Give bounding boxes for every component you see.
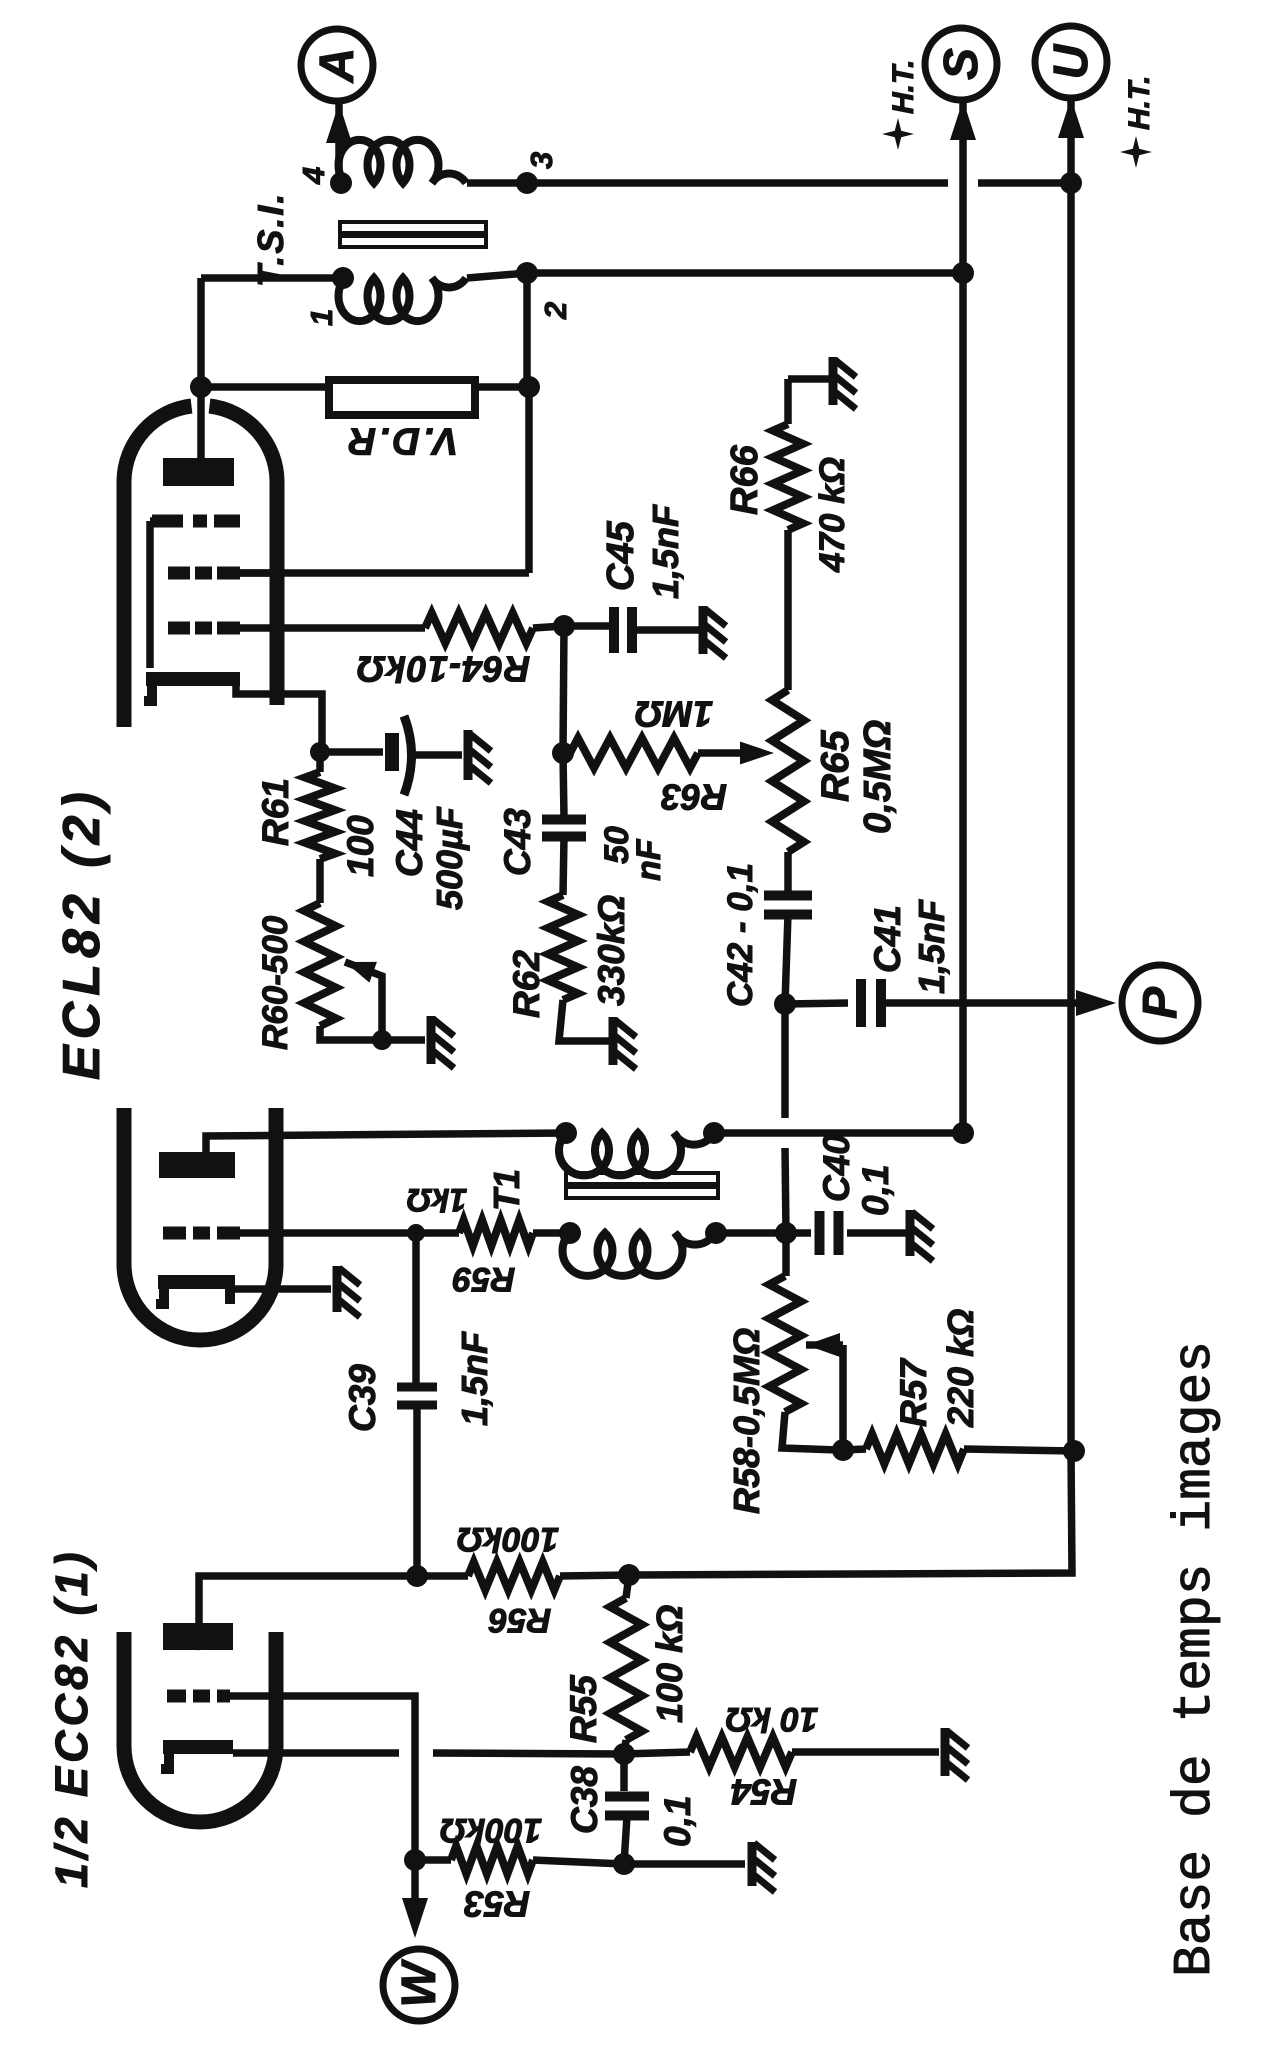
svg-text:T.S.I.: T.S.I. bbox=[250, 192, 291, 287]
svg-text:Base de temps images: Base de temps images bbox=[1165, 1341, 1225, 1977]
svg-text:220 kΩ: 220 kΩ bbox=[940, 1309, 981, 1428]
svg-text:R61: R61 bbox=[255, 778, 296, 846]
svg-text:0,5MΩ: 0,5MΩ bbox=[857, 720, 899, 834]
svg-text:R57: R57 bbox=[893, 1357, 934, 1427]
svg-text:500µF: 500µF bbox=[429, 806, 470, 910]
svg-text:H.T.: H.T. bbox=[887, 60, 920, 114]
svg-text:1/2 ECC82 (1): 1/2 ECC82 (1) bbox=[46, 1548, 97, 1888]
svg-text:T1: T1 bbox=[486, 1169, 527, 1211]
svg-text:1kΩ: 1kΩ bbox=[407, 1182, 468, 1218]
svg-text:U: U bbox=[1045, 43, 1098, 79]
svg-text:R64-10kΩ: R64-10kΩ bbox=[356, 648, 530, 689]
svg-text:C44: C44 bbox=[389, 809, 430, 877]
svg-text:R54: R54 bbox=[731, 1771, 797, 1812]
svg-text:R53: R53 bbox=[464, 1883, 530, 1924]
svg-text:0,1: 0,1 bbox=[855, 1165, 896, 1216]
svg-text:1MΩ: 1MΩ bbox=[635, 693, 713, 734]
svg-text:R58-0,5MΩ: R58-0,5MΩ bbox=[726, 1328, 767, 1514]
svg-text:100: 100 bbox=[340, 815, 381, 877]
svg-text:10 kΩ: 10 kΩ bbox=[726, 1700, 819, 1738]
svg-text:C41: C41 bbox=[867, 905, 908, 973]
svg-text:R65: R65 bbox=[814, 729, 857, 802]
svg-text:100kΩ: 100kΩ bbox=[457, 1520, 559, 1558]
svg-text:100kΩ: 100kΩ bbox=[440, 1811, 542, 1849]
svg-text:R56: R56 bbox=[488, 1601, 551, 1639]
svg-text:C39: C39 bbox=[342, 1364, 383, 1432]
svg-text:100 kΩ: 100 kΩ bbox=[649, 1605, 690, 1723]
svg-text:1,5nF: 1,5nF bbox=[454, 1331, 495, 1426]
svg-text:1,5nF: 1,5nF bbox=[645, 504, 686, 599]
svg-text:A: A bbox=[311, 48, 364, 84]
svg-text:S: S bbox=[935, 48, 988, 80]
svg-text:W: W bbox=[393, 1959, 446, 2008]
svg-text:R62: R62 bbox=[506, 950, 547, 1018]
svg-text:330kΩ: 330kΩ bbox=[591, 895, 632, 1006]
svg-text:470 kΩ: 470 kΩ bbox=[813, 457, 852, 573]
svg-text:R66: R66 bbox=[724, 444, 766, 515]
svg-text:C42 - 0,1: C42 - 0,1 bbox=[721, 863, 760, 1007]
svg-text:1,5nF: 1,5nF bbox=[911, 899, 952, 994]
svg-text:P: P bbox=[1134, 986, 1187, 1019]
svg-text:C40: C40 bbox=[816, 1134, 857, 1202]
svg-text:3: 3 bbox=[524, 152, 559, 169]
svg-text:1: 1 bbox=[304, 309, 339, 326]
svg-text:R59: R59 bbox=[453, 1260, 515, 1298]
svg-text:V.D.R: V.D.R bbox=[346, 420, 459, 462]
svg-text:2: 2 bbox=[538, 302, 573, 320]
svg-text:C38: C38 bbox=[564, 1766, 605, 1834]
svg-text:C45: C45 bbox=[600, 520, 642, 591]
svg-text:4: 4 bbox=[296, 167, 331, 185]
svg-text:nF: nF bbox=[630, 838, 668, 881]
svg-text:R60-500: R60-500 bbox=[256, 915, 295, 1050]
svg-text:0,1: 0,1 bbox=[657, 1796, 698, 1847]
svg-text:R63: R63 bbox=[661, 776, 727, 817]
svg-text:ECL82 (2): ECL82 (2) bbox=[53, 786, 111, 1080]
svg-text:C43: C43 bbox=[497, 808, 538, 876]
svg-text:R55: R55 bbox=[563, 1674, 604, 1743]
svg-text:H.T.: H.T. bbox=[1123, 76, 1156, 130]
